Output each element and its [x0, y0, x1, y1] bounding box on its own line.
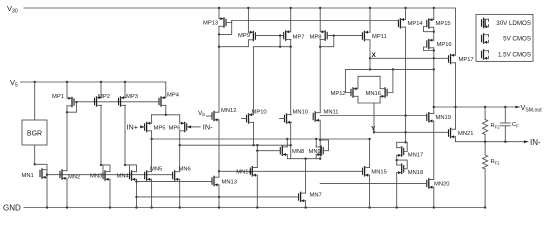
wire MP9 drain to MN12 chain — [219, 40, 248, 47]
label MP16 — [437, 42, 452, 48]
svg-text:MN1: MN1 — [22, 173, 34, 179]
svg-text:MP11: MP11 — [372, 34, 387, 40]
svg-text:MN12: MN12 — [221, 108, 236, 114]
svg-text:MN21: MN21 — [458, 131, 473, 137]
label MN19 — [436, 115, 451, 121]
transistor MN4 — [130, 171, 137, 181]
label MN4 — [117, 174, 130, 180]
svg-text:IN-: IN- — [203, 122, 213, 131]
wire MP3 drain chain — [124, 105, 126, 166]
node GND label — [3, 204, 21, 213]
wire MN2 source to GND — [66, 178, 68, 207]
label MN12 — [221, 108, 236, 114]
wire MN14 source to GND — [256, 175, 258, 207]
node IN+ label — [127, 122, 139, 131]
wire MN6 drain up — [179, 145, 181, 172]
transistor MP4 — [159, 96, 166, 106]
svg-text:IN+: IN+ — [127, 122, 139, 131]
wire MP13 gate bus L2 — [232, 21, 399, 23]
wire cell to Y — [373, 103, 375, 132]
svg-text:RF2: RF2 — [491, 123, 501, 129]
legend box — [476, 14, 533, 61]
label MP2 — [98, 94, 110, 100]
transistor MN9 — [316, 146, 323, 156]
wire MN14 drain up — [256, 145, 258, 167]
transistor MP7 — [284, 30, 291, 40]
svg-text:MP17: MP17 — [459, 57, 474, 63]
svg-text:MN11: MN11 — [324, 110, 339, 116]
transistor MP15 — [427, 18, 434, 28]
wire MP13 drain chain to MN12 — [218, 26, 220, 112]
wire X stub down — [369, 58, 371, 70]
wire MN4 source to GND — [135, 179, 137, 207]
label MN20 — [434, 182, 449, 188]
transistor MN5 — [145, 171, 152, 181]
transistor MP11 — [362, 31, 369, 41]
svg-text:MN7: MN7 — [310, 193, 322, 199]
transistor MN7 — [299, 192, 306, 202]
legend text 5V CMOS — [503, 36, 531, 43]
wire MN10 source down — [290, 122, 292, 158]
node X — [369, 52, 377, 60]
svg-text:MN3: MN3 — [90, 174, 102, 180]
wire X to MP17 gate — [370, 57, 449, 59]
transistor MP12 — [351, 87, 358, 97]
transistor MN19 — [427, 113, 434, 123]
wire MN14 MN15 gate bus B5 — [219, 170, 363, 172]
label MP17 — [459, 57, 474, 63]
node IN- label (input pair) — [203, 122, 213, 131]
wire MP1 source to V5 — [66, 82, 68, 98]
transistor MP6 — [180, 122, 187, 132]
svg-text:MN20: MN20 — [434, 182, 449, 188]
label RF2 — [491, 123, 501, 129]
capacitor CF — [500, 123, 510, 126]
wire MP12 cell sides — [358, 76, 380, 103]
transistor MP16 — [427, 39, 434, 49]
transistor MN21 — [449, 128, 456, 138]
legend text 1.5V CMOS — [498, 52, 531, 59]
label MN3 — [90, 174, 102, 180]
wire RF2 top — [484, 107, 486, 120]
node VSM,out label — [516, 103, 543, 113]
label MN14 — [236, 170, 252, 176]
transistor MP8 — [320, 30, 327, 40]
svg-text:MN10: MN10 — [293, 109, 308, 115]
transistor MP9 — [248, 31, 255, 41]
transistor MN20 — [427, 179, 434, 189]
transistor MN6 — [173, 171, 180, 181]
svg-text:MN15: MN15 — [371, 170, 386, 176]
wire MP9 source to V30 — [247, 8, 249, 32]
legend symbol 5V CMOS — [482, 34, 489, 44]
wire MP15 diode loop — [424, 27, 435, 33]
wire MP12 MN16 loop top — [358, 75, 380, 77]
wire Cf bottom — [504, 126, 506, 142]
svg-text:MP14: MP14 — [408, 21, 424, 27]
wire Y line to MN21 gate — [374, 131, 449, 133]
label MN18 — [408, 170, 423, 176]
label MP5 — [154, 125, 166, 131]
transistor MN1 — [40, 169, 47, 179]
wire MP11 source to V30 — [369, 8, 371, 32]
transistor MN11 — [313, 112, 320, 122]
svg-text:GND: GND — [3, 204, 21, 213]
label MP12 — [331, 91, 346, 97]
svg-text:MN16: MN16 — [366, 91, 381, 97]
wire Cf top — [504, 107, 506, 123]
transistor MP5 — [145, 122, 152, 132]
svg-text:5V CMOS: 5V CMOS — [503, 36, 531, 43]
wire first stage output line L139 — [150, 138, 370, 140]
svg-text:CF: CF — [512, 122, 519, 128]
svg-text:MN6: MN6 — [179, 167, 191, 173]
wire MP5 drain down — [151, 131, 153, 139]
wire RF2 bottom — [484, 135, 486, 142]
wire MN6 source to GND — [179, 179, 181, 207]
svg-text:MP15: MP15 — [436, 21, 451, 27]
label MN11 — [324, 110, 339, 116]
wire MN21 source to IN- — [455, 137, 457, 142]
wire MN18 source to GND — [396, 173, 398, 208]
wire MN17 diode loop — [397, 142, 408, 151]
label MN13 — [222, 180, 237, 186]
svg-text:MN13: MN13 — [222, 180, 237, 186]
block BGR — [22, 120, 47, 145]
wire MN11 source down — [319, 120, 321, 160]
wire MP8 drain chain to MN11 — [319, 39, 321, 112]
svg-text:30V LDMOS: 30V LDMOS — [496, 20, 531, 27]
label MN5 — [150, 167, 162, 173]
svg-text:MP13: MP13 — [203, 21, 218, 27]
label MN10 — [293, 109, 308, 115]
svg-text:MP8: MP8 — [310, 34, 322, 40]
wire cascode node line A — [254, 46, 291, 48]
transistor MN16 — [380, 88, 387, 98]
wire MN16 gate loop — [387, 69, 393, 92]
transistor MP10 — [247, 113, 254, 123]
wire MN15 source to GND — [369, 175, 371, 207]
label MN15 — [371, 170, 386, 176]
wire MP14 source to V30 — [405, 8, 407, 20]
resistor RF2 — [483, 120, 488, 135]
wire MN8 MN9 bottom line — [287, 158, 320, 160]
wire MN4 drain jog — [125, 165, 137, 172]
wire MN9 source down — [315, 155, 317, 159]
label CF — [512, 122, 519, 128]
wire MP16 drain chain to MN19 — [433, 48, 435, 114]
label MP3 — [126, 94, 138, 100]
wire MP7 drain chain to MN10 — [290, 39, 292, 114]
wire MP10 drain down — [252, 122, 254, 146]
svg-text:MN19: MN19 — [436, 115, 451, 121]
wire MP2 drain chain — [100, 105, 102, 166]
wire MN19 source to MN20 — [433, 121, 435, 180]
wire Vb to MN12 gate — [207, 115, 213, 117]
wire MN13 source to GND — [218, 185, 220, 208]
wire MP14 drain chain — [404, 27, 406, 143]
wire MN20 gate bus — [320, 182, 427, 184]
svg-text:MP4: MP4 — [167, 92, 180, 98]
label MP11 — [372, 34, 387, 40]
svg-text:MN14: MN14 — [236, 170, 252, 176]
transistor MN10 — [285, 114, 292, 124]
wire MN4 gate stub — [129, 165, 131, 172]
wire MN5 source to GND — [151, 179, 153, 207]
transistor MN8 — [280, 146, 287, 156]
wire MN7 gate bus B4 — [137, 196, 299, 198]
wire MP8 MP11 gate line — [327, 34, 362, 36]
label MN1 — [22, 173, 34, 179]
wire MN15 drain up — [369, 139, 371, 168]
transistor MP13 — [219, 17, 226, 27]
wire MN3 gate stub — [102, 165, 104, 172]
svg-text:RF1: RF1 — [491, 159, 501, 165]
wire MP6 source up — [179, 115, 181, 123]
transistor MP3 — [119, 96, 126, 106]
node IN- output label — [524, 138, 541, 147]
svg-text:MP9: MP9 — [238, 33, 250, 39]
wire MP11 drain to X — [369, 40, 371, 59]
transistor MN12 — [212, 111, 219, 121]
wire MP7 source to V30 — [290, 8, 292, 32]
wire IN- feedback line — [456, 141, 529, 143]
transistor MN18 — [397, 164, 404, 174]
transistor MN2 — [60, 170, 67, 180]
svg-text:MP3: MP3 — [126, 94, 138, 100]
svg-text:MN4: MN4 — [117, 174, 130, 180]
svg-text:MN17: MN17 — [408, 153, 423, 159]
svg-text:MN18: MN18 — [408, 170, 423, 176]
wire MP2 source to V5 — [100, 82, 102, 98]
node V30 label — [7, 4, 18, 14]
wire MP8 source to V30 — [319, 8, 321, 32]
label MN16 — [366, 91, 381, 97]
label MN17 — [408, 153, 423, 159]
wire RF1 bottom — [484, 169, 486, 208]
wire V5 corner to MP4 source — [165, 82, 167, 98]
transistor MN17 — [397, 147, 404, 157]
wire MP13 source to V30 — [218, 8, 220, 19]
svg-text:MP16: MP16 — [437, 42, 452, 48]
svg-text:MN2: MN2 — [68, 175, 80, 181]
wire V5 power rail — [20, 81, 165, 83]
label MP10 — [252, 109, 267, 115]
wire MP10 gate stub — [242, 118, 247, 120]
wire MN1 vertical — [46, 170, 48, 208]
wire MP15 drain to MP16 — [433, 27, 435, 40]
wire MP7 MP9 gate bias stub — [279, 36, 281, 48]
label MN2 — [68, 175, 80, 181]
wire second output line L145 — [179, 144, 291, 146]
svg-text:MN8: MN8 — [292, 149, 304, 155]
svg-text:BGR: BGR — [27, 131, 42, 138]
transistor MN3 — [103, 171, 110, 181]
wire MN20 source to GND — [433, 187, 435, 207]
wire MP1 drain chain — [66, 106, 68, 171]
wire MP16 diode loop — [424, 47, 435, 52]
transistor MP17 — [449, 54, 456, 64]
label MN6 — [179, 167, 191, 173]
wire MN10 gate stub — [280, 118, 285, 120]
wire V30 corner to MP17 source — [455, 8, 457, 55]
svg-text:MP5: MP5 — [154, 125, 166, 131]
wire MN1 diode top — [35, 164, 47, 169]
wire MP5 source up — [151, 115, 153, 123]
wire MP13 diode loop — [218, 23, 232, 36]
wire IN- arrow to MP6 gate — [187, 125, 201, 128]
wire MN9 drain stub — [315, 139, 317, 147]
transistor MP2 — [95, 96, 102, 106]
wire PMOS mirror gate bus — [77, 101, 160, 103]
transistor MN13 — [212, 176, 219, 186]
label MP6 — [169, 125, 181, 131]
wire MP12 cell bottom — [358, 102, 380, 104]
wire MP12 gate feed — [345, 69, 351, 92]
label MP9 — [238, 33, 250, 39]
label MN7 — [310, 193, 322, 199]
wire MP4 drain to tail — [165, 105, 167, 115]
wire bias line to MP12 cell — [345, 68, 433, 70]
node Vb label — [198, 110, 205, 118]
label RF1 — [491, 159, 501, 165]
wire MP6 drain down — [179, 131, 181, 145]
svg-text:MP1: MP1 — [52, 94, 64, 100]
svg-text:Y: Y — [371, 126, 376, 133]
transistor MN14 — [250, 167, 257, 177]
wire MN3 source to GND — [109, 179, 111, 207]
wire MP9 MP7 gate line — [255, 34, 283, 36]
label MN8 — [292, 149, 304, 155]
wire MN18 diode loop — [396, 159, 408, 169]
wire MP10 source up — [253, 47, 255, 115]
label MP8 — [310, 34, 322, 40]
wire tail bus — [152, 114, 180, 116]
resistor RF1 — [483, 155, 488, 169]
svg-text:MP7: MP7 — [293, 34, 305, 40]
legend symbol 1.5V CMOS — [482, 50, 489, 60]
ground rail GND — [24, 206, 486, 208]
wire MP15 source to V30 — [433, 8, 435, 20]
wire MN8 drain stub — [286, 139, 288, 147]
wire RF1 top — [484, 142, 486, 155]
wire NMOS mirror gate bus B1 — [47, 174, 173, 176]
node Y — [371, 126, 376, 134]
legend symbol 30V LDMOS — [482, 18, 489, 28]
label MP4 — [167, 92, 180, 98]
wire MN9 gate loop — [320, 140, 328, 151]
transistor MN15 — [363, 167, 370, 177]
wire MN3 drain jog — [101, 165, 110, 172]
label MP15 — [436, 21, 451, 27]
transistor MP14 — [398, 18, 405, 28]
label MN9 — [309, 149, 321, 155]
wire MN7 drain up — [305, 159, 307, 193]
label MP1 — [52, 94, 64, 100]
wire MP1 diode loop — [66, 101, 78, 114]
label MP14 — [408, 21, 424, 27]
svg-text:IN-: IN- — [530, 138, 541, 147]
svg-text:MP2: MP2 — [98, 94, 110, 100]
wire MN12 source to MN13 — [218, 120, 220, 177]
wire IN+ arrow to MP5 gate — [140, 125, 145, 128]
wire MP17 drain to output — [454, 63, 456, 129]
legend text 30V LDMOS — [496, 20, 531, 27]
wire MP8 gate bias stub — [320, 36, 334, 47]
wire MN11 drain line to MN19 gate — [320, 115, 427, 117]
transistor MP1 — [67, 97, 74, 107]
label MN21 — [458, 131, 473, 137]
node V5 label — [10, 78, 18, 88]
svg-text:MP12: MP12 — [331, 91, 346, 97]
svg-text:MN9: MN9 — [309, 149, 321, 155]
wire BGR to MN1 node — [34, 145, 36, 166]
wire MP3 source to V5 — [124, 82, 126, 98]
label MP13 — [203, 21, 218, 27]
label MP7 — [293, 34, 305, 40]
wire MN8 source down — [286, 155, 288, 159]
wire BGR to V5 — [34, 82, 36, 120]
wire MN5 drain up — [151, 139, 153, 172]
wire MN8 gate line — [256, 150, 280, 152]
svg-text:MP6: MP6 — [169, 125, 181, 131]
wire output line — [434, 106, 520, 108]
wire MN7 source to GND — [305, 201, 307, 208]
wire MN17 source to MN18 — [396, 155, 398, 165]
wire MN13 gate bus B2 — [137, 181, 213, 183]
svg-text:1.5V CMOS: 1.5V CMOS — [498, 52, 531, 59]
wire V30 power rail — [24, 7, 456, 9]
